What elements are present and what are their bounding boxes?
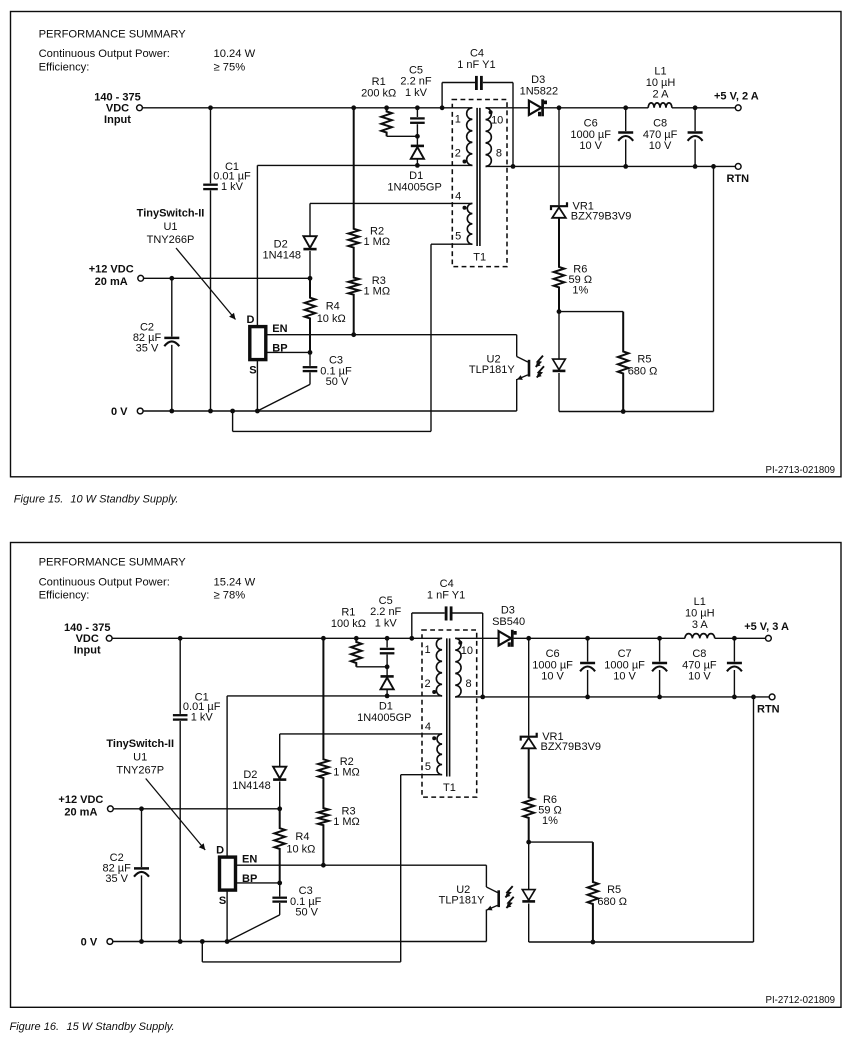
diode D3 bbox=[529, 99, 547, 116]
svg-text:PI-2712-021809: PI-2712-021809 bbox=[766, 995, 835, 1006]
label C3 value bbox=[320, 355, 352, 389]
wire R6 to LED bbox=[558, 312, 560, 360]
svg-text:1 MΩ: 1 MΩ bbox=[364, 236, 391, 248]
svg-text:BZX79B3V9: BZX79B3V9 bbox=[571, 211, 632, 223]
svg-text:2.2 nF: 2.2 nF bbox=[370, 606, 401, 618]
PI code bbox=[766, 995, 835, 1006]
pin 2 bbox=[455, 148, 461, 160]
junction input rail / R2 bbox=[351, 105, 356, 110]
svg-text:Figure 15.: Figure 15. bbox=[14, 494, 64, 506]
phasing dot pin 10 bbox=[489, 110, 493, 114]
svg-text:D1: D1 bbox=[409, 170, 423, 182]
wire feedback bottom bbox=[559, 411, 714, 413]
svg-text:10 µH: 10 µH bbox=[646, 77, 676, 89]
wire drain riser bbox=[226, 696, 228, 857]
efficiency value bbox=[214, 61, 246, 73]
svg-text:1N5822: 1N5822 bbox=[520, 85, 559, 97]
svg-text:D3: D3 bbox=[501, 605, 515, 617]
label R5 value bbox=[597, 884, 627, 908]
label C8 value bbox=[682, 648, 717, 682]
node VDC input terminal bbox=[137, 105, 143, 111]
pin 4 bbox=[455, 191, 461, 203]
label R2 value bbox=[333, 756, 360, 778]
svg-text:+5 V, 2 A: +5 V, 2 A bbox=[714, 91, 759, 103]
svg-text:U1: U1 bbox=[133, 752, 147, 764]
svg-text:R1: R1 bbox=[372, 76, 386, 88]
optocoupler transistor U2 bbox=[486, 865, 498, 941]
pin 8 bbox=[496, 148, 502, 160]
svg-text:VDC: VDC bbox=[76, 633, 99, 645]
junction R1-C5 / D1 bbox=[415, 134, 420, 139]
diode D1 bbox=[381, 667, 394, 696]
junction RTN / C6 bbox=[585, 695, 590, 700]
svg-text:PI-2713-021809: PI-2713-021809 bbox=[766, 465, 835, 476]
svg-text:10 V: 10 V bbox=[541, 670, 564, 682]
svg-text:4: 4 bbox=[425, 721, 431, 733]
wire primary return to drain bbox=[227, 695, 442, 697]
label R1 value bbox=[361, 76, 396, 100]
svg-text:Input: Input bbox=[74, 644, 101, 656]
label R3 value bbox=[333, 806, 360, 829]
svg-text:20 mA: 20 mA bbox=[64, 807, 97, 819]
svg-text:RTN: RTN bbox=[757, 703, 780, 715]
svg-text:BZX79B3V9: BZX79B3V9 bbox=[541, 741, 602, 753]
output power value bbox=[214, 48, 256, 60]
svg-text:1 MΩ: 1 MΩ bbox=[364, 286, 391, 298]
svg-text:140 - 375: 140 - 375 bbox=[94, 91, 140, 103]
PI code bbox=[766, 465, 835, 476]
label T1 bbox=[443, 782, 456, 794]
label +12VDC 20mA bbox=[89, 264, 134, 289]
svg-text:EN: EN bbox=[242, 853, 257, 865]
svg-text:+5 V, 3 A: +5 V, 3 A bbox=[744, 621, 789, 633]
svg-text:0 V: 0 V bbox=[111, 406, 128, 418]
resistor R4 bbox=[305, 278, 316, 352]
resistor R3 bbox=[318, 782, 329, 866]
wire EN line bbox=[266, 334, 517, 336]
label R2 value bbox=[364, 226, 391, 248]
junction R4 / BP / C3 bbox=[308, 350, 313, 355]
node +12VDC terminal bbox=[108, 806, 114, 812]
svg-text:1N4148: 1N4148 bbox=[263, 249, 302, 261]
figure border frame bbox=[11, 543, 842, 1008]
figure caption bbox=[14, 494, 179, 506]
svg-text:T1: T1 bbox=[443, 782, 456, 794]
svg-text:R5: R5 bbox=[637, 354, 651, 366]
svg-text:≥ 78%: ≥ 78% bbox=[214, 590, 246, 602]
wire bias winding return bbox=[233, 244, 473, 431]
junction C1 / 0V rail bbox=[178, 939, 183, 944]
label +5V output bbox=[744, 621, 789, 633]
resistor R2 bbox=[318, 638, 329, 781]
svg-text:≥ 75%: ≥ 75% bbox=[214, 61, 246, 73]
node +5V output terminal bbox=[766, 635, 772, 641]
capacitor C1 bbox=[203, 108, 218, 411]
wire D2 to bias winding bbox=[280, 733, 442, 735]
svg-text:10 V: 10 V bbox=[688, 670, 711, 682]
svg-text:5: 5 bbox=[425, 761, 431, 773]
wire source lead bbox=[256, 360, 258, 411]
wire +12V rail bbox=[143, 277, 310, 279]
wire C4 riser left bbox=[442, 83, 475, 108]
efficiency value bbox=[214, 590, 246, 602]
inductor L1 bbox=[648, 103, 672, 108]
resistor R3 bbox=[348, 251, 359, 335]
junction RTN / C8 bbox=[732, 695, 737, 700]
node 0V terminal bbox=[137, 408, 143, 414]
wire LED to bottom bbox=[558, 373, 560, 412]
svg-text:1 kV: 1 kV bbox=[405, 87, 428, 99]
wire R5 top link bbox=[559, 311, 623, 313]
junction C2 / 0V rail bbox=[139, 939, 144, 944]
node VDC input terminal bbox=[106, 635, 112, 641]
junction input rail / R1 bbox=[384, 105, 389, 110]
junction RTN / feedback riser bbox=[751, 695, 756, 700]
light arrows bbox=[536, 356, 544, 378]
svg-text:10.24 W: 10.24 W bbox=[214, 48, 256, 60]
transformer core bbox=[477, 108, 480, 246]
svg-text:10: 10 bbox=[461, 645, 473, 657]
pin 2 bbox=[424, 678, 430, 690]
svg-text:1: 1 bbox=[455, 114, 461, 126]
resistor R1 bbox=[351, 638, 362, 667]
performance summary title bbox=[39, 557, 187, 569]
svg-text:2.2 nF: 2.2 nF bbox=[400, 76, 431, 88]
svg-text:TNY267P: TNY267P bbox=[116, 765, 164, 777]
svg-text:0 V: 0 V bbox=[81, 937, 98, 949]
svg-text:C8: C8 bbox=[653, 118, 667, 130]
svg-text:Continuous Output Power:: Continuous Output Power: bbox=[39, 48, 170, 60]
label C2 value bbox=[133, 322, 162, 355]
svg-text:8: 8 bbox=[466, 678, 472, 690]
svg-text:1 nF Y1: 1 nF Y1 bbox=[427, 590, 465, 602]
wire EN line bbox=[236, 864, 487, 866]
wire LED to bottom bbox=[528, 904, 530, 943]
label C6 value bbox=[532, 648, 573, 682]
diode D3 bbox=[499, 630, 517, 647]
svg-text:10 V: 10 V bbox=[579, 140, 602, 152]
svg-text:T1: T1 bbox=[473, 252, 486, 264]
svg-text:S: S bbox=[249, 364, 256, 376]
pin 1 bbox=[424, 644, 430, 656]
label VR1 value bbox=[571, 200, 632, 222]
svg-text:15.24 W: 15.24 W bbox=[214, 577, 256, 589]
junction input rail / C4 riser bbox=[409, 636, 414, 641]
svg-text:Efficiency:: Efficiency: bbox=[39, 61, 90, 73]
svg-text:20 mA: 20 mA bbox=[95, 276, 128, 288]
svg-text:2 A: 2 A bbox=[653, 89, 670, 101]
label C7 value bbox=[604, 648, 645, 682]
ic U1 TinySwitch body bbox=[250, 327, 266, 360]
pin 5 bbox=[425, 761, 431, 773]
svg-text:1N4005GP: 1N4005GP bbox=[357, 712, 411, 724]
pin D label bbox=[216, 845, 224, 857]
label C5 value bbox=[400, 65, 431, 100]
svg-text:1%: 1% bbox=[542, 815, 558, 827]
svg-text:C6: C6 bbox=[584, 118, 598, 130]
efficiency row bbox=[39, 590, 90, 602]
transformer T1 shield box bbox=[452, 100, 507, 267]
svg-text:D: D bbox=[216, 845, 224, 857]
svg-text:3 A: 3 A bbox=[692, 619, 709, 631]
transformer core bbox=[447, 638, 450, 776]
diode D2 bbox=[273, 734, 286, 809]
efficiency row bbox=[39, 61, 90, 73]
junction D2 / +12V / R4 bbox=[277, 806, 282, 811]
transformer secondary winding bbox=[486, 108, 492, 167]
junction output rail / C8 bbox=[693, 105, 698, 110]
label R5 value bbox=[628, 354, 658, 378]
label 0 V bbox=[81, 937, 98, 949]
svg-text:C6: C6 bbox=[546, 648, 560, 660]
pin D label bbox=[246, 314, 254, 326]
wire C4 riser right bbox=[453, 613, 483, 697]
label C4 value bbox=[457, 48, 495, 72]
junction R6 / R5 branch bbox=[557, 309, 562, 314]
label C1 value bbox=[183, 691, 221, 723]
svg-text:200 kΩ: 200 kΩ bbox=[361, 87, 396, 99]
wire C4 riser right bbox=[483, 83, 513, 167]
label D2 value bbox=[232, 769, 271, 792]
junction C4 riser / RTN rail bbox=[511, 164, 516, 169]
svg-text:PERFORMANCE SUMMARY: PERFORMANCE SUMMARY bbox=[39, 557, 187, 569]
label R4 value bbox=[317, 301, 346, 325]
svg-text:Figure 16.: Figure 16. bbox=[10, 1021, 60, 1033]
wire VR1 chain upper bbox=[528, 638, 530, 735]
pin 10 bbox=[491, 115, 503, 127]
label VR1 value bbox=[541, 731, 602, 753]
wire RTN rail bbox=[455, 696, 769, 698]
svg-text:10 kΩ: 10 kΩ bbox=[317, 313, 346, 325]
svg-text:RTN: RTN bbox=[727, 173, 750, 185]
transformer bias winding bbox=[467, 203, 472, 244]
junction D1 / primary return bbox=[385, 694, 390, 699]
svg-text:50 V: 50 V bbox=[295, 907, 318, 919]
wire R1-C5 bottom link bbox=[356, 666, 387, 668]
figure border frame bbox=[11, 12, 842, 477]
junction input rail / R1 bbox=[354, 636, 359, 641]
junction D3 / VR1 chain bbox=[557, 105, 562, 110]
zener VR1 bbox=[551, 202, 567, 218]
pin 5 bbox=[455, 231, 461, 243]
junction R6 / R5 branch bbox=[526, 840, 531, 845]
svg-text:1 MΩ: 1 MΩ bbox=[333, 767, 360, 779]
pin EN label bbox=[272, 323, 287, 335]
ic U1 TinySwitch body bbox=[220, 857, 236, 890]
label RTN bbox=[727, 173, 750, 185]
junction input rail / C1 bbox=[208, 105, 213, 110]
label 140-375 VDC Input bbox=[64, 622, 110, 657]
wire VR1 chain upper bbox=[558, 108, 560, 205]
label D3 value bbox=[520, 74, 559, 97]
resistor R6 bbox=[554, 218, 565, 312]
resistor R4 bbox=[274, 809, 285, 883]
label TinySwitch-II U1 bbox=[137, 208, 205, 247]
svg-text:C4: C4 bbox=[470, 48, 484, 60]
label U2 TLP181Y bbox=[439, 884, 486, 907]
svg-text:D3: D3 bbox=[531, 74, 545, 86]
svg-text:1 MΩ: 1 MΩ bbox=[333, 816, 360, 828]
svg-text:1%: 1% bbox=[572, 285, 588, 297]
junction D3 / VR1 chain bbox=[526, 636, 531, 641]
wire output rail bbox=[514, 637, 766, 639]
transformer secondary winding bbox=[455, 638, 461, 697]
svg-text:4: 4 bbox=[455, 191, 461, 203]
svg-text:1 kV: 1 kV bbox=[191, 712, 214, 724]
junction output rail / C7 bbox=[657, 636, 662, 641]
svg-text:10 kΩ: 10 kΩ bbox=[286, 844, 315, 856]
capacitor C5 bbox=[410, 108, 425, 137]
svg-text:Continuous Output Power:: Continuous Output Power: bbox=[39, 577, 170, 589]
node +12VDC terminal bbox=[138, 275, 144, 281]
svg-text:1 kV: 1 kV bbox=[375, 618, 398, 630]
capacitor C6 bbox=[580, 638, 595, 697]
capacitor C8 bbox=[727, 638, 742, 697]
junction input rail / C5 bbox=[385, 636, 390, 641]
node +5V output terminal bbox=[735, 105, 741, 111]
pin 4 bbox=[425, 721, 431, 733]
svg-text:Efficiency:: Efficiency: bbox=[39, 590, 90, 602]
svg-text:680 Ω: 680 Ω bbox=[628, 365, 658, 377]
junction RTN / C7 bbox=[657, 695, 662, 700]
inductor L1 bbox=[685, 634, 715, 639]
junction C1 / 0V rail bbox=[208, 409, 213, 414]
capacitor C2 bbox=[134, 809, 149, 942]
svg-text:D: D bbox=[246, 314, 254, 326]
svg-text:35 V: 35 V bbox=[136, 343, 159, 355]
label C5 value bbox=[370, 595, 401, 630]
zener VR1 bbox=[521, 733, 537, 749]
pin BP label bbox=[272, 342, 287, 354]
wire input rail bbox=[142, 107, 472, 109]
svg-text:R1: R1 bbox=[341, 606, 355, 618]
svg-text:D1: D1 bbox=[379, 701, 393, 713]
label R4 value bbox=[286, 831, 315, 855]
pin BP label bbox=[242, 873, 257, 885]
svg-text:TLP181Y: TLP181Y bbox=[439, 895, 486, 907]
wire C4 riser left bbox=[412, 613, 445, 638]
label TinySwitch-II U1 bbox=[106, 738, 174, 777]
pin S label bbox=[219, 895, 226, 907]
wire secondary top lead bbox=[455, 637, 498, 639]
svg-text:+12 VDC: +12 VDC bbox=[58, 794, 103, 806]
wire feedback riser bbox=[753, 697, 755, 942]
capacitor C4 bbox=[446, 606, 451, 620]
wire input rail bbox=[112, 637, 442, 639]
label D3 value bbox=[492, 605, 525, 628]
junction 0V / bias return bbox=[200, 939, 205, 944]
capacitor C5 bbox=[380, 638, 395, 667]
performance summary title bbox=[39, 28, 187, 40]
label D1 value bbox=[387, 170, 441, 193]
capacitor C4 bbox=[476, 76, 481, 90]
output power value bbox=[214, 577, 256, 589]
svg-text:EN: EN bbox=[272, 323, 287, 335]
wire source lead bbox=[226, 890, 228, 941]
svg-text:8: 8 bbox=[496, 148, 502, 160]
optocoupler LED U2 bbox=[553, 359, 566, 371]
label D1 value bbox=[357, 701, 411, 724]
svg-text:10 V: 10 V bbox=[613, 670, 636, 682]
arrow to U1 bbox=[176, 248, 236, 320]
label C4 value bbox=[427, 578, 465, 602]
node 0V terminal bbox=[107, 939, 113, 945]
resistor R2 bbox=[348, 108, 359, 251]
svg-text:5: 5 bbox=[455, 231, 461, 243]
junction 0V / source bbox=[225, 939, 230, 944]
junction R3 / EN line bbox=[321, 863, 326, 868]
svg-text:R5: R5 bbox=[607, 884, 621, 896]
svg-text:1 kV: 1 kV bbox=[221, 181, 244, 193]
optocoupler transistor U2 bbox=[517, 335, 529, 411]
junction R5 / feedback bottom bbox=[621, 409, 626, 414]
label C6 value bbox=[570, 118, 611, 152]
wire feedback riser bbox=[713, 166, 715, 411]
capacitor C3 bbox=[227, 883, 287, 942]
svg-text:10 µH: 10 µH bbox=[685, 608, 715, 620]
phasing dot pin 4 bbox=[432, 736, 436, 740]
label +5V output bbox=[714, 91, 759, 103]
resistor R5 bbox=[588, 842, 599, 942]
wire D2 to bias winding bbox=[310, 202, 472, 204]
junction R3 / EN line bbox=[351, 332, 356, 337]
svg-text:15 W Standby Supply.: 15 W Standby Supply. bbox=[67, 1021, 175, 1033]
phasing dot pin 10 bbox=[458, 641, 462, 645]
svg-text:R4: R4 bbox=[295, 831, 309, 843]
wire R6 to LED bbox=[528, 842, 530, 890]
svg-text:50 V: 50 V bbox=[326, 376, 349, 388]
svg-text:C4: C4 bbox=[440, 578, 454, 590]
capacitor C1 bbox=[173, 638, 188, 941]
continuous output power row bbox=[39, 48, 170, 60]
svg-text:1 nF Y1: 1 nF Y1 bbox=[457, 59, 495, 71]
svg-text:TinySwitch-II: TinySwitch-II bbox=[106, 738, 174, 750]
svg-text:1N4005GP: 1N4005GP bbox=[387, 181, 441, 193]
wire RTN rail bbox=[486, 165, 736, 167]
label R1 value bbox=[331, 606, 366, 630]
capacitor C6 bbox=[618, 108, 633, 167]
diode D1 bbox=[411, 136, 424, 165]
pin 8 bbox=[466, 678, 472, 690]
transformer T1 shield box bbox=[422, 630, 477, 797]
diode D2 bbox=[303, 203, 316, 278]
svg-text:10: 10 bbox=[491, 115, 503, 127]
label R6 value bbox=[569, 264, 593, 297]
junction RTN / C8 bbox=[693, 164, 698, 169]
svg-text:100 kΩ: 100 kΩ bbox=[331, 618, 366, 630]
svg-text:10 V: 10 V bbox=[649, 140, 672, 152]
resistor R5 bbox=[618, 312, 629, 412]
label L1 value bbox=[685, 596, 715, 631]
svg-text:1N4148: 1N4148 bbox=[232, 780, 271, 792]
wire 0V rail bbox=[143, 410, 517, 412]
junction C2 / 0V rail bbox=[169, 409, 174, 414]
label T1 bbox=[473, 252, 486, 264]
phasing dot pin 2 bbox=[432, 690, 436, 694]
junction output rail / C8 bbox=[732, 636, 737, 641]
label 140-375 VDC Input bbox=[94, 91, 140, 126]
svg-text:PERFORMANCE SUMMARY: PERFORMANCE SUMMARY bbox=[39, 28, 187, 40]
wire +12V rail bbox=[113, 808, 280, 810]
label D2 value bbox=[263, 239, 302, 262]
label C3 value bbox=[290, 885, 322, 919]
junction input rail / C4 riser bbox=[440, 105, 445, 110]
junction input rail / R2 bbox=[321, 636, 326, 641]
label C1 value bbox=[213, 161, 251, 193]
svg-text:L1: L1 bbox=[694, 596, 706, 608]
phasing dot pin 2 bbox=[463, 160, 467, 164]
pin 1 bbox=[455, 114, 461, 126]
